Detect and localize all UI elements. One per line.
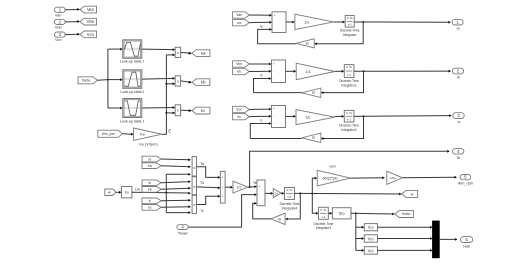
svg-text:z-1: z-1	[321, 215, 325, 219]
svg-text:K Ts: K Ts	[346, 65, 352, 69]
svg-text:x: x	[193, 203, 195, 207]
svg-text:R: R	[312, 90, 315, 95]
svg-text:x: x	[193, 185, 195, 189]
svg-text:K Ts: K Ts	[287, 188, 293, 192]
svg-text:+: +	[273, 107, 275, 111]
svg-text:x: x	[177, 78, 179, 83]
svg-text:K Ts: K Ts	[347, 16, 353, 20]
svg-text:Ke: Ke	[140, 132, 146, 137]
svg-text:eb: eb	[148, 188, 152, 192]
svg-text:Tload: Tload	[178, 232, 188, 236]
svg-text:B: B	[278, 216, 281, 221]
svg-text:ec: ec	[148, 206, 152, 210]
svg-text:-: -	[259, 193, 260, 197]
svg-text:f(u): f(u)	[368, 249, 373, 253]
svg-text:eb: eb	[201, 80, 206, 85]
svg-text:Te: Te	[253, 181, 257, 185]
svg-text:Integrator: Integrator	[343, 33, 358, 37]
svg-text:+: +	[273, 62, 275, 66]
svg-text:+: +	[273, 13, 275, 17]
svg-text:-: -	[273, 69, 274, 73]
svg-text:ib: ib	[260, 74, 263, 78]
svg-text:ib: ib	[148, 181, 151, 185]
svg-text:-: -	[273, 114, 274, 118]
svg-text:Vcn: Vcn	[236, 108, 242, 112]
svg-text:Vbn: Vbn	[236, 62, 242, 66]
svg-text:1/2p: 1/2p	[390, 176, 396, 180]
svg-text:eb: eb	[237, 70, 241, 74]
svg-text:-: -	[273, 122, 274, 126]
svg-text:-: -	[259, 202, 260, 206]
svg-text:1/w: 1/w	[135, 188, 141, 192]
svg-text:x: x	[177, 50, 179, 55]
svg-text:E: E	[168, 128, 171, 133]
svg-text:+: +	[222, 186, 224, 190]
svg-text:Van: Van	[55, 13, 61, 17]
svg-text:ec: ec	[201, 108, 205, 113]
svg-text:-: -	[274, 28, 275, 32]
svg-text:ic: ic	[458, 120, 461, 124]
svg-text:1/L: 1/L	[305, 69, 311, 74]
svg-text:Integrator1: Integrator1	[341, 83, 357, 87]
svg-text:Integrator4: Integrator4	[282, 206, 298, 210]
svg-text:w: w	[108, 191, 111, 195]
svg-text:Van: Van	[236, 13, 242, 17]
svg-text:f(u): f(u)	[368, 226, 373, 230]
svg-text:ea: ea	[237, 21, 241, 25]
svg-text:z-1: z-1	[348, 23, 352, 27]
svg-text:1/L: 1/L	[304, 19, 310, 24]
svg-text:Look-up table1: Look-up table1	[120, 90, 144, 94]
svg-text:+: +	[222, 194, 224, 198]
svg-text:Tb: Tb	[200, 181, 204, 185]
svg-text:1/2: 1/2	[237, 185, 242, 189]
svg-text:1/u: 1/u	[124, 191, 129, 195]
svg-text:Look-up table 1: Look-up table 1	[120, 60, 145, 64]
svg-text:Vbn: Vbn	[55, 26, 62, 30]
svg-text:f(u): f(u)	[368, 237, 373, 241]
svg-text:Integrator2: Integrator2	[341, 128, 357, 132]
svg-text:+: +	[222, 176, 224, 180]
svg-text:f(u): f(u)	[339, 212, 345, 216]
svg-text:60/(2*pi): 60/(2*pi)	[322, 176, 338, 181]
svg-text:x: x	[193, 166, 195, 170]
svg-text:ia: ia	[148, 157, 151, 161]
svg-text:R: R	[312, 135, 315, 140]
svg-text:Ke (V/rpm): Ke (V/rpm)	[139, 142, 158, 146]
svg-text:+: +	[259, 185, 261, 189]
svg-text:ic: ic	[260, 119, 263, 123]
svg-text:Tc: Tc	[200, 209, 204, 213]
svg-text:Hall: Hall	[463, 245, 470, 249]
svg-text:theta: theta	[82, 79, 91, 83]
svg-text:-: -	[274, 20, 275, 24]
svg-text:z-1: z-1	[347, 118, 351, 122]
svg-text:theta: theta	[402, 212, 410, 216]
svg-text:Wm_rpm: Wm_rpm	[102, 132, 116, 136]
svg-text:R: R	[306, 41, 309, 46]
svg-text:ec: ec	[237, 115, 241, 119]
svg-text:Integrator3: Integrator3	[316, 226, 332, 230]
svg-text:1/L: 1/L	[305, 115, 311, 120]
svg-text:z-1: z-1	[287, 195, 291, 199]
svg-text:z-1: z-1	[347, 73, 351, 77]
svg-text:ea: ea	[148, 164, 152, 168]
svg-text:rpm: rpm	[329, 165, 335, 169]
svg-text:Van: Van	[87, 7, 95, 12]
svg-text:Vbn: Vbn	[87, 19, 95, 24]
svg-text:ea: ea	[201, 51, 206, 56]
svg-text:Ta: Ta	[200, 162, 204, 166]
svg-text:-: -	[273, 77, 274, 81]
svg-text:Te: Te	[456, 156, 460, 160]
svg-text:w: w	[411, 192, 414, 196]
svg-text:K Ts: K Ts	[321, 208, 327, 212]
svg-text:ia: ia	[260, 25, 263, 29]
svg-text:ib: ib	[457, 76, 460, 80]
svg-text:x: x	[177, 108, 179, 113]
svg-text:Vcn: Vcn	[55, 38, 62, 42]
svg-text:Look-up table 1: Look-up table 1	[120, 119, 145, 123]
svg-text:K Ts: K Ts	[346, 111, 352, 115]
svg-text:ic: ic	[149, 199, 152, 203]
svg-text:Vcn: Vcn	[87, 32, 95, 37]
svg-text:Wm_rpm: Wm_rpm	[458, 182, 473, 186]
